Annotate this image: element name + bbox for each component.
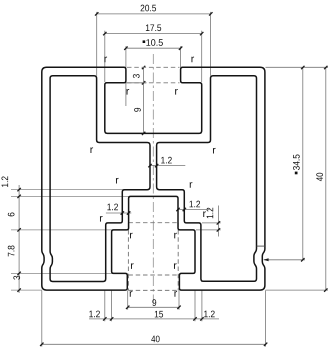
right side extensions — [266, 66, 329, 68]
right cavity contour — [157, 76, 257, 281]
dimension 1.2 left shoulder — [106, 212, 131, 214]
vertical center line — [152, 54, 154, 303]
dimension 1.2 15 1.2 bottom — [89, 318, 219, 320]
hidden dashed slot lines bottom tower — [127, 223, 129, 291]
leader arrow for *34.5 notch — [264, 259, 305, 261]
left chain extension lines — [11, 189, 123, 191]
right wall notch upper tick — [257, 245, 265, 247]
dimension 1.2 step slab vertical right — [202, 222, 221, 224]
dimension *34.5 — [302, 67, 304, 259]
bottom extension lines — [41, 291, 43, 347]
extension lines for top dimensions — [96, 12, 98, 76]
dimension 40 right — [325, 67, 327, 290]
dimension 1.2 web — [150, 165, 186, 167]
dimension 9 bottom — [128, 306, 179, 308]
dimension column 3 and 9 — [143, 67, 145, 133]
dimension *10.5 — [126, 47, 181, 49]
dimension 1.2 right shoulder — [177, 209, 211, 211]
left dimension line chain 1.2 6 7.8 3 — [18, 185, 20, 293]
fillet radius r labels — [104, 57, 107, 63]
dimension 17.5 — [105, 33, 202, 35]
dimension 40 bottom — [42, 343, 266, 345]
dimension 20.5 — [97, 13, 211, 15]
left cavity contour — [50, 76, 150, 282]
profile outer contour with top channel and bottom slot mouth — [42, 67, 265, 290]
hidden dashed lines across top mouth — [127, 66, 180, 68]
